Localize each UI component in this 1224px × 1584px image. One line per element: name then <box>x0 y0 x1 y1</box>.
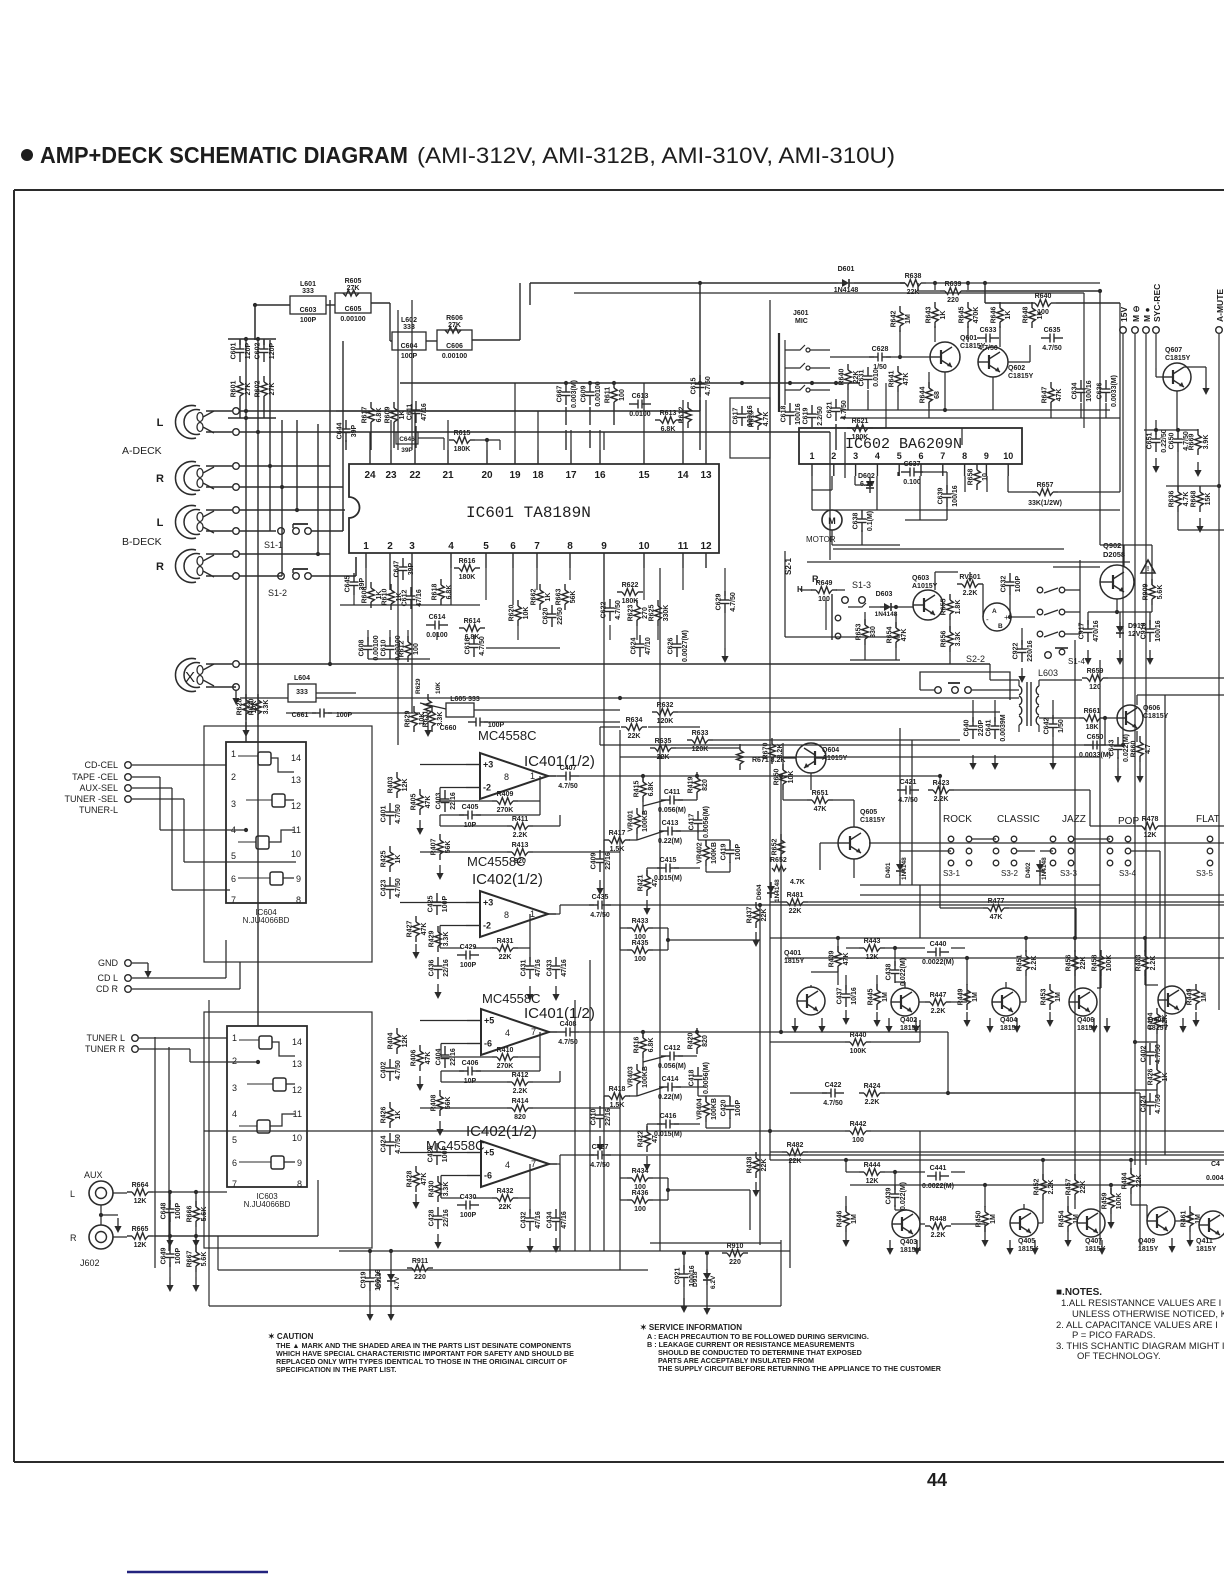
ground R405 R407 <box>419 820 421 829</box>
diode D401 <box>899 860 901 864</box>
resistor R655 <box>949 594 951 600</box>
svg-text:2.2K: 2.2K <box>1031 956 1038 971</box>
svg-text:C414: C414 <box>662 1076 679 1083</box>
capacitor C422 <box>822 1092 831 1094</box>
svg-text:100: 100 <box>634 1206 646 1213</box>
op IC604 NJU4066BD <box>226 742 306 903</box>
wires mic amp <box>830 356 874 358</box>
svg-text:8: 8 <box>296 895 301 905</box>
svg-text:8: 8 <box>504 772 509 782</box>
bus wire v5 <box>296 420 298 510</box>
svg-text:1N4148: 1N4148 <box>901 857 908 880</box>
svg-text:1M: 1M <box>990 1214 997 1224</box>
svg-text:C646: C646 <box>399 436 415 443</box>
svg-text:7: 7 <box>534 541 540 552</box>
wire motor block rails <box>807 561 1130 563</box>
jack B-deck L <box>175 505 196 538</box>
svg-text:R666: R666 <box>187 1206 194 1223</box>
resistor R428 <box>415 1166 417 1172</box>
svg-text:10K: 10K <box>419 713 426 726</box>
svg-text:820: 820 <box>702 779 709 791</box>
svg-text:2.2/50: 2.2/50 <box>817 406 824 426</box>
ground below IC601 cluster <box>724 648 726 657</box>
svg-text:IC401(1/2): IC401(1/2) <box>524 1005 595 1022</box>
svg-text:47/16: 47/16 <box>535 959 542 977</box>
svg-text:R639: R639 <box>945 281 962 288</box>
svg-text:4.7/50: 4.7/50 <box>395 878 402 898</box>
wire lower mid risers <box>559 1164 561 1251</box>
svg-text:6: 6 <box>232 1158 237 1168</box>
op-amp IC402(1/2) A <box>480 891 548 937</box>
svg-text:(AMI-312V, AMI-312B, AMI-310V,: (AMI-312V, AMI-312B, AMI-310V, AMI-310U) <box>417 143 895 168</box>
svg-text:R: R <box>156 561 164 573</box>
svg-text:R461: R461 <box>1181 1211 1188 1228</box>
svg-text:A1015Y: A1015Y <box>912 583 938 590</box>
capacitor C401 <box>389 803 391 812</box>
svg-text:!: ! <box>1147 566 1149 573</box>
potentiometer RV601 <box>957 583 962 585</box>
svg-text:L: L <box>70 1189 75 1199</box>
svg-text:J602: J602 <box>80 1258 100 1268</box>
rail SYC-REC <box>1153 327 1160 334</box>
resistor R629b <box>427 694 429 700</box>
svg-text:R435: R435 <box>632 940 649 947</box>
svg-text:Q405: Q405 <box>1018 1238 1035 1245</box>
svg-text:R408: R408 <box>431 1095 438 1112</box>
svg-text:12: 12 <box>292 1085 302 1095</box>
transistor Q902 <box>1100 565 1134 599</box>
rail M plus <box>1143 327 1150 334</box>
resistor R437 <box>755 902 757 908</box>
svg-text:TUNER -SEL: TUNER -SEL <box>64 794 118 804</box>
svg-text:C425: C425 <box>428 896 435 913</box>
svg-text:C431: C431 <box>521 960 528 977</box>
svg-text:C1815Y: C1815Y <box>1008 373 1034 380</box>
svg-text:9: 9 <box>984 451 989 461</box>
svg-text:C641: C641 <box>986 720 993 737</box>
resistor R623 <box>636 600 638 606</box>
resistor R606 filter block <box>437 330 472 350</box>
svg-text:17: 17 <box>565 470 577 481</box>
svg-text:C633: C633 <box>980 327 997 334</box>
capacitor C404 <box>444 1046 446 1055</box>
svg-text:UNLESS OTHERWISE NOTICED, K=: UNLESS OTHERWISE NOTICED, K= <box>1072 1309 1224 1320</box>
capacitor C417 <box>697 811 699 820</box>
svg-text:R449: R449 <box>958 989 965 1006</box>
svg-text:14: 14 <box>292 1037 302 1047</box>
svg-text:4.7K: 4.7K <box>763 412 770 427</box>
wire bottom bus 1 <box>339 1250 790 1252</box>
svg-text:R414: R414 <box>512 1098 529 1105</box>
resistor R426 <box>389 1102 391 1108</box>
bus wire v7 <box>329 300 331 664</box>
svg-text:13: 13 <box>292 1059 302 1069</box>
resistor R628 <box>245 694 247 700</box>
wire op1 output <box>548 775 557 777</box>
svg-text:R424: R424 <box>864 1083 881 1090</box>
svg-text:4: 4 <box>505 1028 510 1038</box>
svg-text:14: 14 <box>291 753 301 763</box>
svg-text:4.7/50: 4.7/50 <box>590 1162 610 1169</box>
resistor R404 right <box>1156 1008 1158 1014</box>
svg-text:0.0100: 0.0100 <box>629 411 651 418</box>
svg-text:1K: 1K <box>1005 311 1012 320</box>
svg-text:R606: R606 <box>446 315 463 322</box>
svg-text:100P: 100P <box>735 1100 742 1117</box>
resistor R459 <box>1110 1188 1112 1194</box>
capacitor C418 <box>697 1067 699 1076</box>
wire im800 <box>769 300 771 1160</box>
svg-text:Q602: Q602 <box>1008 365 1025 372</box>
bus wire v2 <box>257 340 259 1026</box>
svg-text:C406: C406 <box>462 1060 479 1067</box>
wires Q604 Q605 <box>782 743 784 770</box>
capacitor C405 <box>459 814 468 816</box>
capacitor C601 <box>239 340 241 349</box>
svg-text:J601: J601 <box>793 310 809 317</box>
resistor R427 <box>415 916 417 922</box>
svg-text:1815Y: 1815Y <box>784 958 805 965</box>
svg-text:R615: R615 <box>454 430 471 437</box>
svg-text:C401: C401 <box>381 806 388 823</box>
svg-text:C405: C405 <box>462 804 479 811</box>
svg-text:C921: C921 <box>675 1268 682 1285</box>
resistor R653 <box>864 619 866 625</box>
svg-text:R426: R426 <box>381 1107 388 1124</box>
svg-text:12K: 12K <box>402 1035 409 1048</box>
svg-text:7: 7 <box>232 1179 237 1189</box>
capacitor C414 <box>659 1086 668 1088</box>
svg-text:47K: 47K <box>425 796 432 809</box>
svg-text:L605 333: L605 333 <box>450 696 480 703</box>
svg-text:R646: R646 <box>991 307 998 324</box>
svg-text:22K: 22K <box>628 733 641 740</box>
svg-text:JAZZ: JAZZ <box>1062 814 1086 825</box>
svg-text:0.003(M): 0.003(M) <box>571 380 578 408</box>
svg-text:R910: R910 <box>727 1243 744 1250</box>
svg-text:13: 13 <box>291 775 301 785</box>
capacitor C624 <box>639 635 641 644</box>
svg-text:4.7/50: 4.7/50 <box>978 345 998 352</box>
svg-text:R411: R411 <box>512 816 528 823</box>
capacitor C643 <box>1117 737 1119 746</box>
svg-text:120K: 120K <box>692 746 709 753</box>
svg-text:R659: R659 <box>1087 668 1104 675</box>
resistor R483 <box>1144 950 1146 956</box>
svg-text:C415: C415 <box>660 857 677 864</box>
svg-text:22/50: 22/50 <box>557 607 564 625</box>
svg-text:9: 9 <box>601 541 607 552</box>
svg-text:C411: C411 <box>664 789 680 796</box>
svg-text:C639: C639 <box>938 488 945 505</box>
svg-text:C651: C651 <box>1147 433 1154 450</box>
svg-text:4.7K: 4.7K <box>1183 492 1190 507</box>
svg-text:C440: C440 <box>930 941 947 948</box>
rail A-MUTE <box>1216 327 1223 334</box>
svg-text:22: 22 <box>409 470 421 481</box>
capacitor C916 <box>1149 620 1151 629</box>
svg-text:270K: 270K <box>497 1063 514 1070</box>
resistor R407 <box>439 834 441 840</box>
svg-text:Q408: Q408 <box>1148 1017 1165 1024</box>
svg-text:C603: C603 <box>300 307 317 314</box>
transistor Q602 <box>978 347 1008 377</box>
svg-text:-2: -2 <box>483 921 491 931</box>
svg-text:3.9K: 3.9K <box>1203 435 1210 450</box>
svg-text:OF TECHNOLOGY.: OF TECHNOLOGY. <box>1077 1351 1161 1362</box>
resistor R650 <box>782 764 784 770</box>
svg-text:1M: 1M <box>905 314 912 324</box>
capacitor C608 <box>367 637 369 646</box>
wires IC602 area <box>811 476 813 510</box>
capacitor C661 <box>312 712 320 714</box>
svg-text:MC4558C: MC4558C <box>426 1138 485 1153</box>
diode D602 zener <box>869 477 871 481</box>
svg-text:68: 68 <box>934 391 941 399</box>
svg-text:S3-5: S3-5 <box>1196 869 1213 878</box>
top bus wire B <box>574 292 1084 294</box>
capacitor C403 <box>444 790 446 799</box>
resistor R625 <box>657 600 659 606</box>
svg-text:R429: R429 <box>429 931 436 948</box>
capacitor C629 <box>724 591 726 600</box>
resistor R418 <box>604 1095 609 1097</box>
svg-text:R454: R454 <box>1059 1211 1066 1228</box>
resistor R451 <box>1025 950 1027 956</box>
svg-text:R657: R657 <box>1037 482 1054 489</box>
resistor R477 <box>983 907 988 909</box>
resistor R436 <box>627 1199 632 1201</box>
svg-text:R415: R415 <box>634 781 641 798</box>
svg-text:22/16: 22/16 <box>443 959 450 977</box>
svg-text:9: 9 <box>297 1158 302 1168</box>
grounds C432 C434 <box>529 1238 531 1247</box>
motor drive node circle <box>983 603 1011 631</box>
svg-text:4.7/50: 4.7/50 <box>590 912 610 919</box>
svg-text:1N4148: 1N4148 <box>1041 857 1048 880</box>
svg-text:22K: 22K <box>761 1159 768 1172</box>
capacitor C922 <box>1021 640 1023 649</box>
svg-text:100P: 100P <box>442 1146 449 1163</box>
svg-text:22K: 22K <box>761 909 768 922</box>
svg-text:22K: 22K <box>789 1158 802 1165</box>
resistor R457 <box>1074 1174 1076 1180</box>
resistor R666 <box>195 1201 197 1207</box>
resistor R413 <box>507 851 512 853</box>
resistor R631 <box>431 706 433 712</box>
svg-text:R440: R440 <box>850 1032 867 1039</box>
svg-text:R636: R636 <box>1169 491 1176 508</box>
svg-text:120K: 120K <box>657 718 674 725</box>
svg-text:2.2K: 2.2K <box>934 796 949 803</box>
svg-text:C438: C438 <box>886 964 893 981</box>
resistor R481 <box>782 901 787 903</box>
resistor R909 <box>1151 579 1153 585</box>
motor M601 <box>822 510 842 530</box>
wire op3 output <box>549 1031 557 1033</box>
resistor R614 <box>459 627 464 629</box>
resistor R659 <box>1082 677 1087 679</box>
bus wire v8 <box>342 341 344 512</box>
svg-text:R623: R623 <box>628 605 635 622</box>
potentiometer VR402 <box>705 840 707 846</box>
svg-text:0.22(M): 0.22(M) <box>658 838 682 845</box>
svg-text:C917: C917 <box>1079 623 1086 640</box>
capacitor C402 right <box>1149 1043 1151 1052</box>
svg-text:C628: C628 <box>872 346 889 353</box>
capacitor C431 <box>529 957 531 966</box>
svg-text:10: 10 <box>982 473 989 481</box>
svg-text:R661: R661 <box>1084 708 1101 715</box>
svg-text:D604: D604 <box>756 884 763 900</box>
svg-text:100: 100 <box>634 956 646 963</box>
wire row1 bus a <box>770 937 1224 939</box>
svg-text:C608: C608 <box>359 640 366 657</box>
capacitor C919 <box>369 1269 371 1278</box>
svg-text:100/16: 100/16 <box>375 1269 382 1291</box>
resistor R439 <box>837 946 839 952</box>
svg-text:47K: 47K <box>814 806 827 813</box>
svg-text:L601: L601 <box>300 281 316 288</box>
svg-text:Q406: Q406 <box>1077 1017 1094 1024</box>
svg-text:4.7K: 4.7K <box>790 879 805 886</box>
svg-text:1: 1 <box>363 541 369 552</box>
svg-text:R459: R459 <box>1102 1193 1109 1210</box>
op-amp IC401(1/2) A <box>480 753 548 799</box>
svg-text:R660: R660 <box>1131 741 1138 758</box>
resistor R420 <box>696 1028 698 1034</box>
svg-text:C916: C916 <box>1141 623 1148 640</box>
svg-text:FLAT: FLAT <box>1196 814 1220 825</box>
capacitor C637 <box>901 471 910 473</box>
resistor R433 <box>627 927 632 929</box>
svg-text:4.7/50: 4.7/50 <box>395 804 402 824</box>
svg-text:R668: R668 <box>1191 491 1198 508</box>
capacitor C419 <box>729 841 731 850</box>
svg-text:100KB: 100KB <box>711 1098 718 1120</box>
svg-text:27K: 27K <box>269 383 276 396</box>
wire A-deck R to selector bus <box>239 465 330 467</box>
capacitor C667 <box>565 383 567 392</box>
svg-text:-6: -6 <box>484 1171 492 1181</box>
svg-text:R407: R407 <box>431 839 438 856</box>
capacitor C630 <box>1177 430 1179 439</box>
resistor R442 <box>845 1130 850 1132</box>
svg-text:333: 333 <box>296 689 308 696</box>
resistor R416 <box>642 1032 644 1038</box>
svg-text:C621: C621 <box>827 402 834 419</box>
svg-text:1N4148: 1N4148 <box>774 879 781 902</box>
transistor Q604 <box>796 743 826 773</box>
capacitor C408 <box>557 1031 566 1033</box>
resistor R664 <box>127 1191 132 1193</box>
svg-text:6.2V: 6.2V <box>710 1275 717 1289</box>
grounds row1 <box>794 1018 796 1027</box>
resistor R612 <box>687 402 689 408</box>
svg-text:C631: C631 <box>859 370 866 387</box>
resistor R410 <box>492 1056 497 1058</box>
capacitor C633 <box>977 337 986 339</box>
svg-text:S2-2: S2-2 <box>966 654 985 664</box>
ground C409 <box>599 880 601 889</box>
wire long h 664b <box>989 664 991 680</box>
svg-text:10: 10 <box>292 1133 302 1143</box>
resistor R609 <box>393 402 395 408</box>
svg-text:5: 5 <box>231 851 236 861</box>
svg-text:47: 47 <box>652 1135 659 1143</box>
svg-text:22K: 22K <box>1080 957 1087 970</box>
resistor R652 <box>780 834 782 840</box>
svg-text:R658: R658 <box>968 469 975 486</box>
svg-text:10: 10 <box>1003 451 1013 461</box>
resistor R484 <box>1130 1168 1132 1174</box>
svg-text:R665: R665 <box>132 1226 149 1233</box>
svg-text:0.0056(M): 0.0056(M) <box>703 1062 710 1094</box>
svg-text:4.7/50: 4.7/50 <box>823 1100 843 1107</box>
resistor R911 <box>407 1267 412 1269</box>
resistor R404 <box>396 1028 398 1034</box>
svg-text:12K: 12K <box>134 1198 147 1205</box>
svg-text:3.3K: 3.3K <box>437 712 444 727</box>
resistor R482 <box>782 1151 787 1153</box>
diode D601 <box>838 282 842 284</box>
wires op1 inputs <box>420 764 466 766</box>
svg-text:3: 3 <box>232 1083 237 1093</box>
jack B-deck R <box>175 550 196 583</box>
svg-text:1M: 1M <box>972 992 979 1002</box>
svg-text:Q403: Q403 <box>900 1239 917 1246</box>
wire X jack to mixer <box>239 663 990 665</box>
svg-text:R: R <box>70 1233 77 1243</box>
svg-text:R628: R628 <box>237 699 244 716</box>
svg-text:R406: R406 <box>411 1050 418 1067</box>
wire B-deck L to selector bus <box>239 509 345 511</box>
wires op1 feedback <box>439 788 441 802</box>
resistor R658 <box>976 464 978 470</box>
svg-text:ROCK: ROCK <box>943 814 972 825</box>
svg-text:1N4148: 1N4148 <box>875 611 898 618</box>
svg-text:C645: C645 <box>345 576 352 593</box>
svg-text:-2: -2 <box>483 783 491 793</box>
svg-text:0.0033(M): 0.0033(M) <box>1079 752 1111 759</box>
resistor R635 <box>650 747 655 749</box>
wire top bus A continue <box>854 282 905 284</box>
svg-text:C436: C436 <box>429 960 436 977</box>
svg-text:R630: R630 <box>249 699 256 716</box>
svg-text:47K: 47K <box>903 373 910 386</box>
svg-text:R409: R409 <box>497 791 514 798</box>
svg-text:R655: R655 <box>941 599 948 616</box>
svg-text:12: 12 <box>700 541 712 552</box>
svg-text:0.00100: 0.00100 <box>340 316 365 323</box>
capacitor C634 <box>1080 380 1082 389</box>
svg-text:R622: R622 <box>622 582 639 589</box>
transistor Q406 <box>1069 988 1097 1016</box>
resistor R454 <box>1067 1206 1069 1212</box>
jack A-deck R <box>175 462 196 495</box>
svg-text:R448: R448 <box>930 1216 947 1223</box>
resistor R460 <box>1195 984 1197 990</box>
svg-text:R608: R608 <box>362 587 369 604</box>
resistor R654 <box>895 622 897 628</box>
svg-text:0.0039M: 0.0039M <box>1000 714 1007 741</box>
svg-text:R417: R417 <box>609 830 626 837</box>
svg-text:33K(1/2W): 33K(1/2W) <box>1028 500 1062 507</box>
svg-text:R421: R421 <box>638 875 645 892</box>
resistor R648 <box>1031 302 1033 308</box>
capacitor C424 right <box>1149 1093 1151 1102</box>
svg-text:12K: 12K <box>1144 832 1157 839</box>
